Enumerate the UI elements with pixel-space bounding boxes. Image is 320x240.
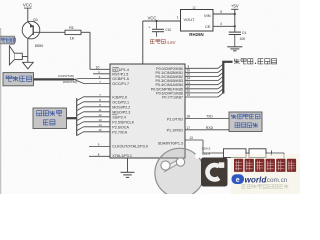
bus horizontal (keyboard) [222, 61, 232, 63]
wire KB2 pin 25 [185, 76, 218, 78]
wire KB5 pin 22 [185, 88, 218, 90]
stub XTAL2 pin 9 [89, 146, 110, 148]
wire LCD bus entry P2.4 [77, 117, 84, 121]
wire Q1 base to R1 [33, 31, 65, 33]
bus vertical (keyboard) [222, 62, 224, 94]
wire LCD bus entry P2.2 [77, 107, 84, 111]
IC U2 regulator RH26N [181, 10, 214, 32]
wire LCD bus entry P2.6 [77, 127, 84, 131]
IC U1 P89LPC935 MCU [110, 64, 185, 158]
wire VCC to Q1 collector [27, 8, 29, 22]
wire R1 to U1 pin 10 [81, 31, 90, 33]
wire VIN [213, 13, 235, 15]
wire KB1 pin 26 [185, 71, 218, 73]
wire KB7 pin 19 [185, 96, 218, 98]
wire KB3 pin 24 [185, 80, 218, 82]
wire KB4 pin 23 [185, 84, 218, 86]
watermark background tint [231, 154, 300, 194]
wire to speaker [22, 56, 28, 58]
wire CCP2 to pin P1.6 [74, 78, 79, 81]
wire VDD riser [142, 21, 144, 64]
watermark slogan [242, 184, 246, 188]
watermark logo square [201, 158, 228, 187]
wire RXD [185, 129, 229, 131]
bus vertical (LCD) [76, 98, 78, 135]
wire LCD bus entry P2.1 [77, 102, 84, 106]
wire RXD to pin P1.7 [74, 79, 84, 83]
stub pin P1.5 [93, 73, 110, 75]
wire KB0 pin 3 [185, 67, 218, 69]
speaker LS1 (buzzer) [14, 53, 22, 59]
wire LCD bus entry P2.0 [77, 97, 84, 101]
wire KB6 pin 20 [185, 92, 218, 94]
wire U1 GND [127, 158, 129, 172]
label keyboard 按键盘、指示灯 [234, 59, 239, 64]
wire LCD bus entry P2.5 [77, 122, 84, 126]
wire X1-X2 [246, 152, 249, 154]
watermark title 电子工程世界 [234, 159, 243, 172]
capacitor C10 [156, 21, 158, 29]
wire Q1 emitter down [27, 39, 29, 57]
block motor-control 电机控制 [3, 73, 34, 86]
wire motor bus (thick) [34, 78, 75, 80]
wire X2 right [266, 152, 284, 154]
component X2 [249, 149, 266, 158]
capacitor C4 [229, 31, 241, 33]
block LCD-module 液晶模块/按键 [33, 108, 67, 129]
wire CE [213, 25, 235, 27]
node VCC junction [155, 20, 157, 22]
label buzzer 蜂鸣器 [0, 36, 15, 44]
stub XTAL1 pin 8 [89, 155, 110, 157]
watermark circle logo [155, 148, 204, 197]
transistor Q1 [22, 21, 40, 39]
watermark url eeworld.com.cn [232, 174, 245, 184]
node CE [234, 25, 236, 27]
wire LCD bus entry P2.7 [77, 132, 84, 136]
ground (buzzer) [27, 57, 29, 63]
node VIN [234, 13, 236, 15]
resistor R1 [65, 30, 81, 34]
wire SDA from pin 13 [185, 139, 203, 141]
wire LCD bus (thick) [67, 117, 77, 119]
wire +5V rail [234, 9, 236, 31]
ground (C4) [227, 46, 242, 48]
block fingerprint 指纹识别模块串口 [229, 112, 262, 132]
label battery 锂电池4.8V [150, 39, 154, 43]
ground (U1) [121, 171, 135, 173]
wire LCD bus entry P2.3 [77, 112, 84, 116]
component X1 (EEPROM) [224, 149, 247, 158]
wire corner down [283, 153, 285, 162]
wire TXD [185, 118, 229, 120]
scan border left [0, 28, 2, 194]
